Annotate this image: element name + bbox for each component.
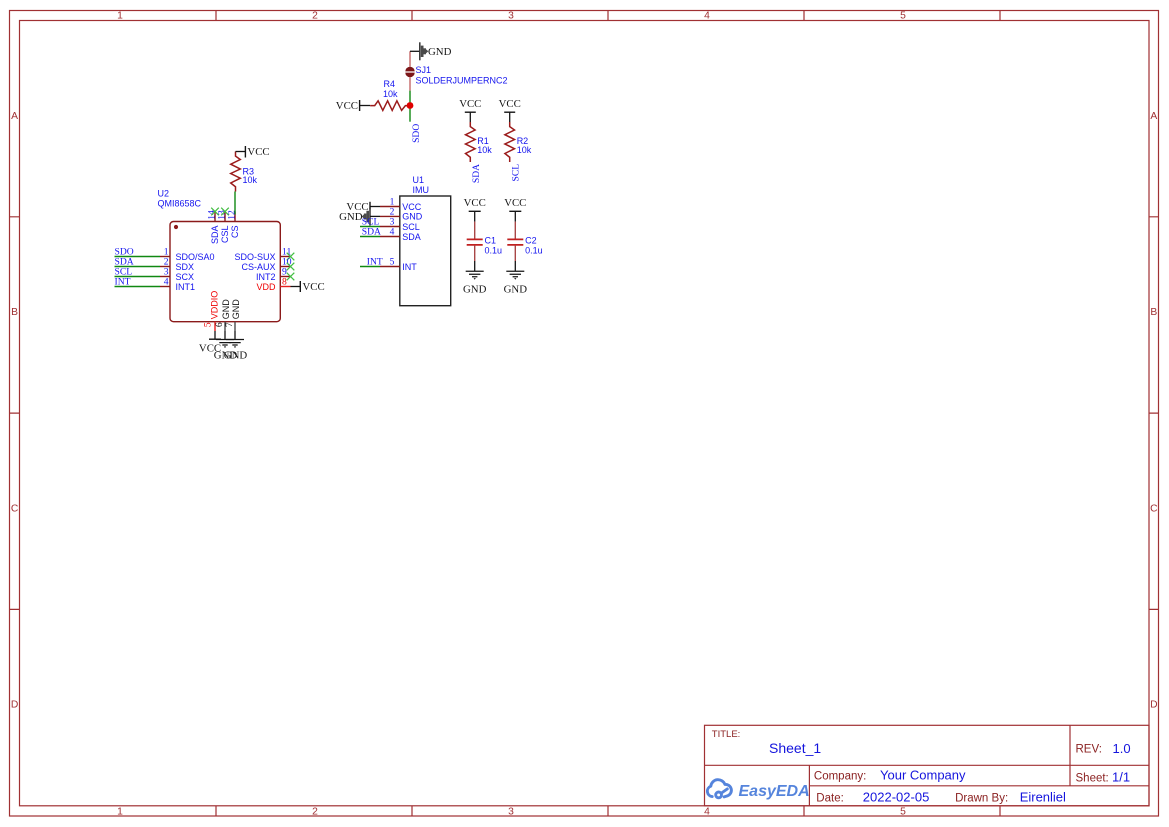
svg-text:REV:: REV: <box>1076 744 1102 756</box>
ground flag GND at U1 pin 2 <box>339 208 380 226</box>
svg-text:5: 5 <box>900 807 906 818</box>
svg-text:Eirenliel: Eirenliel <box>1020 789 1066 804</box>
svg-text:1: 1 <box>390 198 395 208</box>
svg-text:IMU: IMU <box>413 185 430 195</box>
wire junction up to SJ1 <box>409 91 411 106</box>
svg-text:4: 4 <box>704 807 710 818</box>
node INT net label (U1 pin 5) <box>367 256 383 267</box>
pin 5 VDDIO of U2 (power, bottom) <box>203 291 220 331</box>
svg-text:1/1: 1/1 <box>1112 770 1130 785</box>
node SDO net label (U2 pin 1) <box>115 246 134 257</box>
power flag VCC left of R4 <box>336 100 370 112</box>
svg-text:SDO: SDO <box>411 124 422 143</box>
svg-text:GND: GND <box>339 211 363 223</box>
svg-text:GND: GND <box>221 299 231 320</box>
pin 11 SDO-SUX of U2 (no connect) <box>234 246 294 261</box>
pin 12 CS of U2 (top) <box>227 210 241 238</box>
svg-text:GND: GND <box>231 299 241 320</box>
svg-text:INT: INT <box>115 276 131 287</box>
wire SJ1 to GND flag <box>410 50 420 52</box>
svg-text:VCC: VCC <box>303 281 325 293</box>
svg-text:INT: INT <box>367 256 383 267</box>
svg-text:C: C <box>11 503 19 514</box>
svg-text:R4: R4 <box>384 79 396 89</box>
wire SDO to U2 pin 1 <box>115 256 161 258</box>
ground flag GND at U2 pin 6 <box>214 331 238 362</box>
svg-text:SJ1: SJ1 <box>416 65 432 75</box>
svg-text:SDA: SDA <box>402 232 421 242</box>
svg-text:12: 12 <box>227 210 238 220</box>
wire SCL to U2 pin 3 <box>115 276 161 278</box>
ground flag GND above SJ1 <box>420 42 452 60</box>
svg-text:GND: GND <box>428 46 452 58</box>
svg-text:5: 5 <box>390 258 395 268</box>
pin 14 SDA of U2 (no connect, top) <box>207 208 221 244</box>
svg-text:VCC: VCC <box>499 98 521 110</box>
pin 3 SCX of U2 <box>160 266 194 282</box>
svg-text:VCC: VCC <box>336 100 358 112</box>
svg-text:4: 4 <box>390 228 395 238</box>
node SDA net label (below R1) <box>471 164 482 183</box>
power flag VCC above R1 <box>459 98 481 122</box>
node SDO net label (rotated) <box>411 124 422 143</box>
svg-text:EasyEDA: EasyEDA <box>739 783 810 800</box>
svg-text:5: 5 <box>203 322 214 327</box>
pin 3 SCL of U1 <box>380 218 420 232</box>
svg-text:1: 1 <box>117 11 123 22</box>
svg-text:VDDIO: VDDIO <box>209 291 219 320</box>
svg-text:3: 3 <box>508 11 514 22</box>
svg-text:2: 2 <box>390 208 395 218</box>
resistor R4 10k <box>370 79 410 110</box>
svg-text:A: A <box>1150 111 1157 122</box>
wire R3 to U2 pin 12 <box>234 192 236 215</box>
svg-text:10k: 10k <box>477 145 492 155</box>
pin 6 GND of U2 (bottom) <box>214 299 231 331</box>
svg-text:CS: CS <box>230 226 240 239</box>
pin 4 INT1 of U2 <box>160 276 195 292</box>
svg-text:2: 2 <box>312 807 318 818</box>
svg-text:SDA: SDA <box>210 226 220 245</box>
wire junction down to SDO label <box>409 106 411 122</box>
svg-text:GND: GND <box>504 283 528 295</box>
power flag VCC above C1 <box>464 197 486 222</box>
svg-text:C2: C2 <box>525 235 537 245</box>
pin 10 CS-AUX of U2 (no connect) <box>241 256 294 272</box>
svg-text:A: A <box>11 111 18 122</box>
resistor R3 10k <box>231 152 258 192</box>
svg-text:INT1: INT1 <box>176 282 196 292</box>
svg-text:0.1u: 0.1u <box>485 246 503 256</box>
svg-text:SCL: SCL <box>402 222 420 232</box>
svg-text:VCC: VCC <box>402 202 422 212</box>
capacitor C1 0.1u <box>467 222 502 261</box>
resistor R1 10k <box>466 122 493 162</box>
svg-text:C1: C1 <box>485 235 497 245</box>
svg-text:B: B <box>1150 307 1157 318</box>
pin 7 GND of U2 (bottom) <box>224 299 241 331</box>
power flag VCC above C2 <box>504 197 526 222</box>
svg-text:QMI8658C: QMI8658C <box>158 199 202 209</box>
svg-text:VCC: VCC <box>504 197 526 209</box>
svg-text:8: 8 <box>282 276 287 287</box>
svg-text:10k: 10k <box>517 145 532 155</box>
svg-text:4: 4 <box>704 11 710 22</box>
svg-text:CS-AUX: CS-AUX <box>241 262 275 272</box>
resistor R2 10k <box>505 122 532 162</box>
svg-text:U1: U1 <box>413 175 425 185</box>
svg-text:TITLE:: TITLE: <box>712 729 741 740</box>
pin 4 SDA of U1 <box>380 228 421 242</box>
svg-text:GND: GND <box>463 283 487 295</box>
wire INT to U1 pin 5 <box>360 266 380 268</box>
svg-text:INT2: INT2 <box>256 272 276 282</box>
svg-text:Date:: Date: <box>816 792 844 804</box>
svg-text:Drawn By:: Drawn By: <box>955 792 1008 804</box>
power flag VCC above R3 <box>236 146 270 158</box>
svg-text:Sheet_1: Sheet_1 <box>769 740 821 756</box>
pin 2 SDX of U2 <box>160 256 194 272</box>
svg-text:SDO-SUX: SDO-SUX <box>234 252 275 262</box>
IC U2 QMI8658C body <box>158 189 281 322</box>
svg-text:1.0: 1.0 <box>1113 741 1131 756</box>
svg-text:SDA: SDA <box>471 164 482 183</box>
svg-text:Your Company: Your Company <box>880 768 966 783</box>
svg-text:0.1u: 0.1u <box>525 246 543 256</box>
node INT net label (U2 pin 4) <box>115 276 131 287</box>
svg-text:10k: 10k <box>383 89 398 99</box>
solder jumper SJ1 SOLDERJUMPERNC2 <box>405 51 507 90</box>
svg-text:GND: GND <box>224 350 248 362</box>
node SDA net label (U2 pin 2) <box>115 256 134 267</box>
svg-text:4: 4 <box>164 276 169 287</box>
svg-text:2: 2 <box>312 11 318 22</box>
svg-text:1: 1 <box>117 807 123 818</box>
svg-text:5: 5 <box>900 11 906 22</box>
node SCL net label (U2 pin 3) <box>115 266 133 277</box>
svg-text:D: D <box>1150 700 1157 711</box>
svg-text:VCC: VCC <box>464 197 486 209</box>
svg-text:VDD: VDD <box>256 282 276 292</box>
ground flag GND at U2 pin 7 <box>224 331 248 362</box>
svg-text:Sheet:: Sheet: <box>1076 773 1109 785</box>
wire SDA to U2 pin 2 <box>115 266 161 268</box>
connector U1 IMU body <box>400 175 451 306</box>
svg-text:B: B <box>11 307 18 318</box>
node SCL net label (below R2) <box>511 164 522 182</box>
svg-text:U2: U2 <box>158 189 170 199</box>
svg-text:SDX: SDX <box>176 262 195 272</box>
svg-text:GND: GND <box>402 212 423 222</box>
pin 8 VDD of U2 (power) <box>256 276 290 292</box>
pin 1 VCC of U1 <box>380 198 422 212</box>
svg-text:INT: INT <box>402 262 417 272</box>
power flag VCC at U1 pin 1 <box>346 201 380 213</box>
svg-text:SCX: SCX <box>176 272 195 282</box>
node SCL net label (U1 pin 3) <box>362 216 380 227</box>
ground flag GND below C1 <box>463 261 487 295</box>
svg-text:VCC: VCC <box>247 146 269 158</box>
wire SDA to U1 pin 4 <box>360 236 380 238</box>
junction at R4 / SJ1 / SDO node <box>407 102 414 109</box>
svg-text:Company:: Company: <box>814 770 866 782</box>
svg-text:D: D <box>11 700 18 711</box>
svg-text:SDO/SA0: SDO/SA0 <box>176 252 215 262</box>
svg-text:3: 3 <box>508 807 514 818</box>
svg-text:SDA: SDA <box>362 226 381 237</box>
svg-text:CSL: CSL <box>220 226 230 244</box>
svg-text:C: C <box>1150 503 1158 514</box>
power flag VCC at U2 pin 5 <box>199 331 221 355</box>
svg-text:SCL: SCL <box>511 164 522 182</box>
pin 1 SDO/SA0 of U2 <box>160 246 215 261</box>
svg-text:3: 3 <box>390 218 395 228</box>
svg-text:VCC: VCC <box>459 98 481 110</box>
svg-text:7: 7 <box>224 322 235 327</box>
svg-text:2022-02-05: 2022-02-05 <box>863 789 930 804</box>
capacitor C2 0.1u <box>507 222 542 261</box>
wire INT to U2 pin 4 <box>115 286 161 288</box>
power flag VCC above R2 <box>499 98 521 122</box>
pin 2 GND of U1 <box>380 208 423 222</box>
svg-text:10k: 10k <box>243 175 258 185</box>
pin 13 CSL of U2 (no connect, top) <box>217 208 231 243</box>
pin 5 INT of U1 <box>380 258 417 272</box>
node SDA net label (U1 pin 4) <box>362 226 381 237</box>
power flag VCC at U2 pin 8 <box>291 281 325 293</box>
pin 9 INT2 of U2 (no connect) <box>256 266 294 282</box>
wire SCL to U1 pin 3 <box>360 226 380 228</box>
ground flag GND below C2 <box>504 261 528 295</box>
svg-text:SOLDERJUMPERNC2: SOLDERJUMPERNC2 <box>416 75 508 85</box>
